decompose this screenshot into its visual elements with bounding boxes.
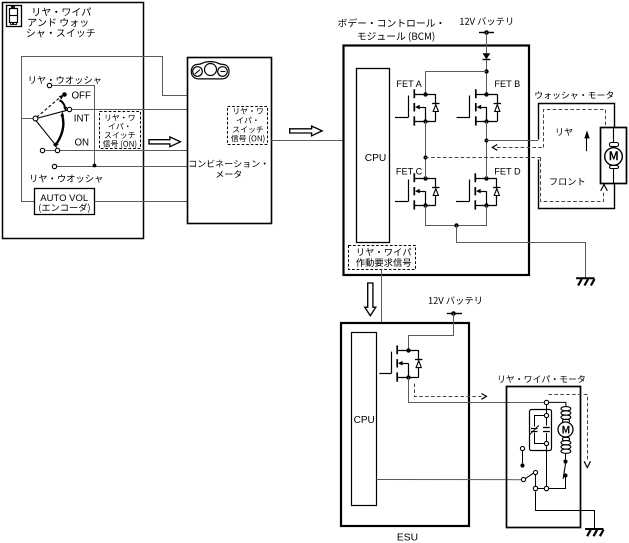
- motor terminal: [544, 400, 548, 404]
- label リヤ・ウオッシャ (bottom): [31, 175, 102, 183]
- dashed signal: ESU drive arrow: [415, 384, 487, 400]
- switch arm to OFF (dashed): [37, 95, 64, 117]
- bottom rail node right: [544, 486, 548, 490]
- wire: ESU battery to FET drain: [409, 314, 454, 349]
- cap assembly node top: [544, 413, 548, 417]
- label ウォッシャ・モータ: [536, 91, 614, 99]
- motion arrow OFF to INT: [60, 100, 68, 111]
- pivot contact: [33, 116, 38, 121]
- breaker branch: [535, 416, 545, 444]
- label フロント: [550, 178, 584, 185]
- wire: throw to bottom rail: [535, 474, 537, 487]
- body control module (BCM) box: [344, 46, 530, 276]
- label リヤ・ワイパ・モータ: [499, 375, 585, 383]
- wire: wiper motor to ground: [536, 492, 595, 529]
- battery node (BCM): [484, 30, 489, 35]
- wiper motor M: [558, 422, 573, 437]
- FET D: [456, 173, 501, 209]
- svg-text:AUTO VOL: AUTO VOL: [40, 193, 88, 204]
- wire: BCM to ground: [457, 226, 586, 278]
- washer motor M: [605, 148, 623, 166]
- AUTO VOL encoder box: [35, 189, 95, 215]
- svg-text:CPU: CPU: [354, 415, 375, 426]
- ON contact left: [40, 148, 44, 152]
- wire: INT contact to meter: [72, 109, 188, 111]
- dashed washer front path: [541, 158, 604, 202]
- wire: FET C/D sources common: [426, 206, 487, 226]
- rear wiper motor box: [507, 387, 581, 528]
- OFF contact: [62, 92, 67, 97]
- wire: top washer contact to washer signal: [52, 86, 95, 166]
- bottom rail node left: [533, 486, 537, 490]
- wire: ON contacts to meter: [45, 150, 188, 152]
- rear wiper and washer switch assembly box: [3, 3, 144, 239]
- switch arm to INT: [38, 110, 68, 118]
- FET A: [395, 89, 440, 125]
- switch stalk icon frame: [7, 6, 22, 27]
- CPU box (ESU): [352, 333, 377, 506]
- dashed box リヤ・ワイパ・スイッチ信号(ON) in meter: [228, 107, 268, 145]
- FET C: [395, 173, 440, 209]
- junction front washer tap: [424, 156, 428, 160]
- FET B: [457, 89, 501, 125]
- flow arrow meter to BCM: [290, 126, 322, 136]
- title リヤ・ワイパ アンド ウォッシャ・スイッチ: [27, 8, 95, 38]
- junction washer wires: [93, 164, 97, 168]
- flow arrow BCM to ESU: [365, 283, 376, 316]
- dashed signal: washer rear return arrow: [492, 145, 543, 151]
- instrument cluster icon: [191, 62, 229, 79]
- wire: encoder to meter: [95, 201, 188, 203]
- ON contact right: [55, 148, 59, 152]
- wire: ESU CPU to wiper park switch: [377, 479, 522, 481]
- label リヤ (washer): [557, 128, 573, 136]
- wire: ESU FET source to wiper motor: [409, 378, 545, 403]
- park contact stub: [522, 451, 524, 464]
- label 12V バッテリ (ESU): [429, 296, 481, 304]
- wire: encoder loop (left + top + step into meter): [22, 57, 188, 202]
- label 12V バッテリ (BCM): [460, 17, 512, 25]
- wire: FET B source to FET D drain: [486, 121, 488, 178]
- chevron arrow down (wiper motor): [584, 461, 590, 467]
- cap assembly node bottom: [544, 441, 548, 445]
- thermal breaker: [530, 425, 539, 434]
- washer motor box (gap on left edge): [539, 104, 615, 209]
- park switch common: [521, 477, 525, 481]
- rear flow up arrow: [584, 130, 589, 151]
- svg-text:OFF: OFF: [72, 91, 91, 102]
- wire: coil to contact: [565, 453, 567, 459]
- battery terminal bar (ESU): [447, 313, 462, 315]
- washer motor brush bottom: [610, 166, 619, 169]
- svg-text:FET D: FET D: [494, 167, 521, 177]
- dashed box リヤ・ワイパ・スイッチ信号(ON) in switch: [100, 112, 141, 149]
- wiper motor brush bottom: [563, 438, 570, 441]
- battery terminal bar (BCM): [479, 32, 494, 34]
- wiper speed contact b: [563, 473, 567, 477]
- wire: terminal to armature: [549, 402, 566, 406]
- ground (BCM): [576, 278, 594, 285]
- washer motor M box: [601, 128, 627, 184]
- contact blade: [563, 461, 566, 479]
- svg-text:INT: INT: [74, 114, 90, 125]
- washer contact top: [47, 83, 51, 87]
- chevron arrow into washer motor bottom: [601, 185, 608, 191]
- motion arc INT to ON: [55, 112, 64, 147]
- CPU box (BCM): [357, 69, 390, 243]
- switch arm to ON: [36, 121, 57, 148]
- washer motor brush top: [610, 143, 619, 147]
- svg-text:ESU: ESU: [397, 533, 418, 543]
- ESU box: [341, 323, 469, 526]
- wire: battery to diode: [486, 32, 488, 53]
- dashed signal: front washer feed: [425, 157, 541, 159]
- capacitor C1: [543, 428, 550, 432]
- park contact top: [520, 446, 524, 450]
- combination meter box: [188, 58, 272, 224]
- svg-text:FET B: FET B: [494, 79, 520, 89]
- wire: rear washer signal (bottom contact to meter): [57, 166, 188, 168]
- park contact bottom: [520, 463, 524, 467]
- park switch arm: [525, 473, 533, 478]
- wire: meter to BCM: [271, 140, 343, 142]
- dashed washer rear path: [544, 110, 606, 148]
- label (エンコーダ): [39, 203, 90, 213]
- svg-text:CPU: CPU: [365, 153, 387, 164]
- junction rear washer feed: [485, 139, 489, 143]
- wire: diode to FET B drain: [486, 60, 488, 93]
- armature coil bottom: [561, 441, 571, 445]
- wire: battery rail to FET A: [425, 72, 486, 93]
- ESU output FET: [379, 345, 422, 381]
- park switch throw: [533, 470, 537, 474]
- label コンビネーション・メータ: [190, 160, 266, 178]
- dashed signal: into wiper motor: [549, 395, 588, 460]
- junction FET sources: [454, 223, 458, 227]
- ground (wiper motor): [585, 529, 603, 536]
- switch stalk icon: [9, 7, 17, 25]
- svg-text:FET C: FET C: [396, 167, 423, 177]
- junction battery rail: [484, 69, 488, 73]
- INT contact: [67, 107, 71, 111]
- wire: BCM to ESU request signal: [381, 270, 383, 323]
- washer motor leads: [613, 128, 615, 184]
- wire: bottom rail: [537, 488, 565, 490]
- wire: rear washer feed to washer motor: [486, 140, 538, 142]
- label ボデー・コントロール・モジュール(BCM): [338, 18, 441, 41]
- wire: terminal through cap assembly: [546, 405, 548, 487]
- svg-text:FET A: FET A: [396, 79, 422, 89]
- wire: contact to bottom rail: [565, 475, 567, 489]
- wiper speed contact a: [563, 459, 567, 463]
- wire: FET A source to FET C drain: [425, 121, 427, 178]
- svg-text:ON: ON: [75, 138, 90, 149]
- flow arrow switch to meter: [149, 137, 180, 147]
- label リヤ・ウオッシャ (top): [30, 76, 101, 84]
- dashed box リヤ・ワイパ作動要求信号: [349, 246, 416, 270]
- armature coil top: [561, 407, 571, 411]
- cap assembly box: [530, 410, 552, 451]
- wire: pivot common tap: [22, 118, 34, 120]
- battery node (ESU): [451, 311, 456, 316]
- washer contact bottom: [52, 164, 56, 168]
- wiper motor brush top: [563, 420, 570, 423]
- diode D1: [483, 53, 491, 59]
